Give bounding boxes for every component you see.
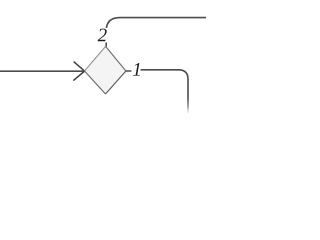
pin number 1 label background	[132, 63, 141, 77]
diamond edge upper-right	[106, 46, 126, 71]
wire: left input net	[0, 70, 85, 72]
pin number 2	[98, 29, 107, 42]
diamond edge lower-right	[106, 71, 126, 94]
pin number 1	[133, 63, 140, 76]
diamond edge upper-left	[85, 46, 106, 71]
arrowhead on left wire into diamond	[73, 62, 84, 81]
wire: pin 1 net (right, curving down, fading)	[126, 70, 131, 72]
diamond edge lower-left	[85, 71, 106, 94]
diamond symbol body (fill)	[85, 46, 126, 94]
wire: pin 2 net (top, curving right)	[106, 18, 206, 47]
pin number 2 label background	[97, 28, 108, 43]
